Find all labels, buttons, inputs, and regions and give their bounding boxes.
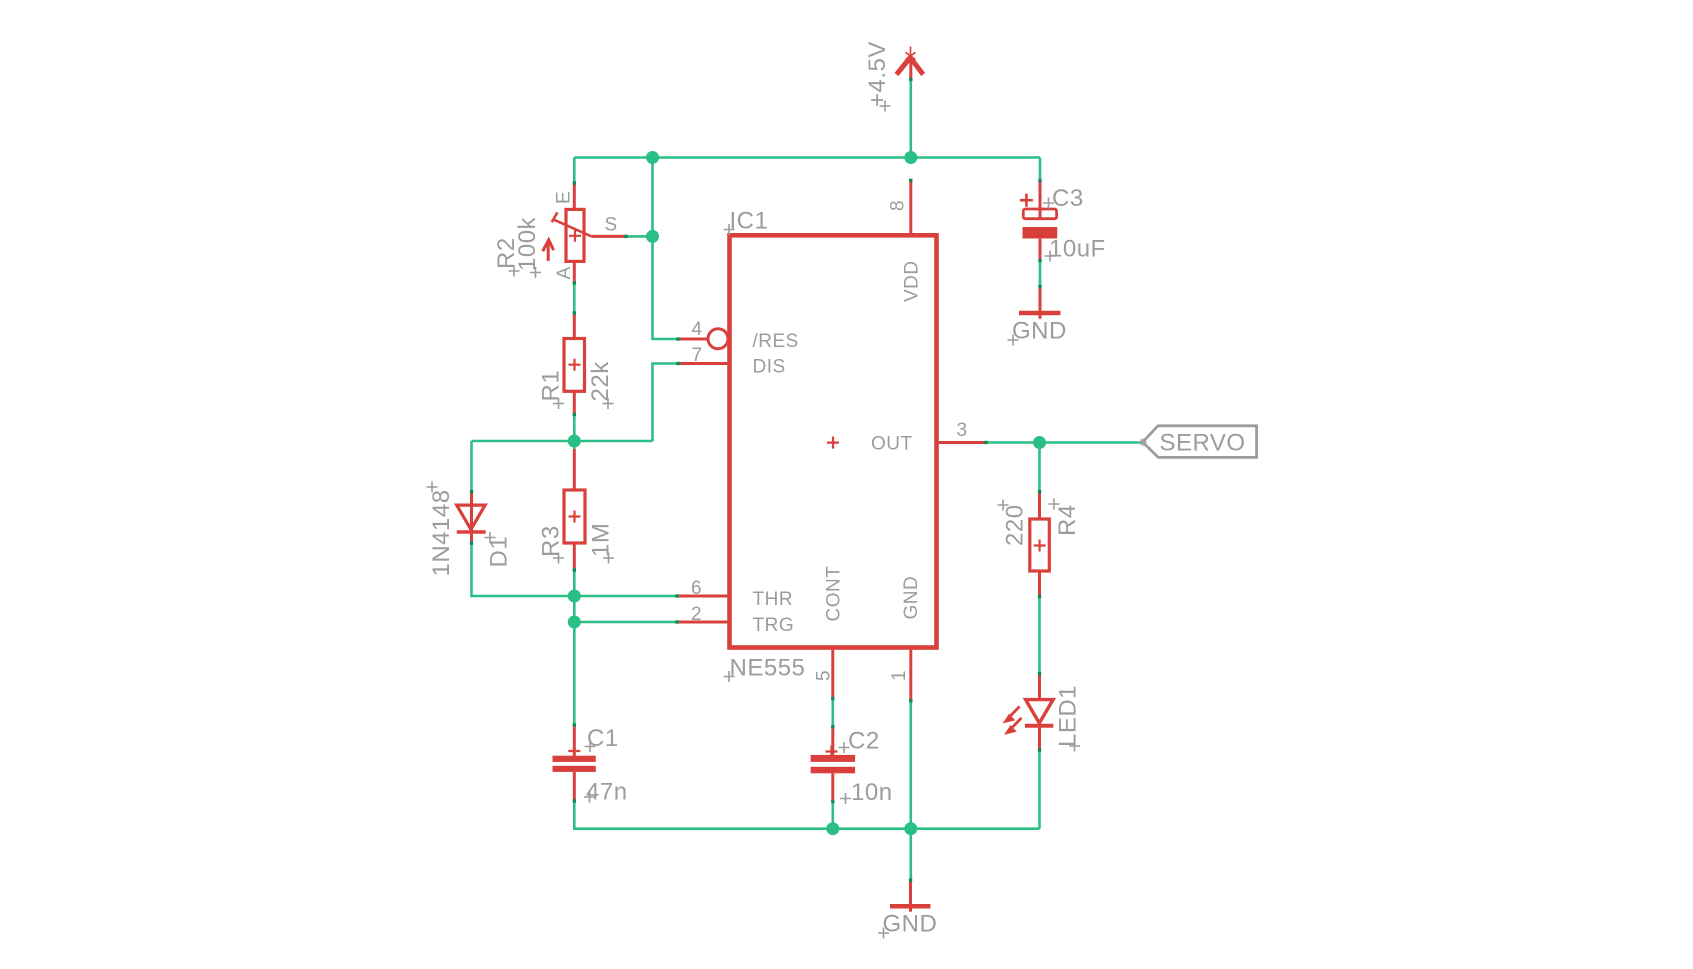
svg-text:47n: 47n	[586, 779, 628, 806]
wire C3 to GND	[1039, 261, 1042, 287]
svg-text:R3: R3	[538, 525, 565, 557]
svg-text:DIS: DIS	[753, 357, 786, 378]
label origin crosses gray	[427, 101, 1081, 939]
wire THR	[574, 595, 677, 598]
pin connection points	[470, 78, 1042, 882]
node junction J5 THR	[568, 590, 581, 603]
wire node to D1 top	[470, 441, 473, 492]
wire supply arrow to rail	[909, 80, 912, 158]
wire D1 bottom to THR node	[472, 543, 575, 596]
pin 5 CONT stub	[831, 650, 834, 699]
svg-text:GND: GND	[1012, 318, 1067, 345]
pin 1 GND stub	[909, 650, 912, 701]
resistor R4	[1030, 492, 1050, 597]
svg-text:GND: GND	[901, 576, 922, 620]
resistor R1	[564, 313, 585, 415]
svg-text:NE555: NE555	[730, 655, 806, 682]
svg-text:1M: 1M	[588, 523, 615, 557]
svg-text:100k: 100k	[514, 216, 541, 271]
wire OUT to SERVO	[986, 441, 1143, 444]
capacitor C1	[553, 725, 596, 801]
pin 3 OUT stub	[939, 441, 986, 444]
op IC1 NE555 body	[730, 235, 937, 647]
potentiometer R2	[543, 183, 626, 283]
wire rail to GND	[909, 829, 912, 881]
svg-text:1N4148: 1N4148	[428, 489, 455, 576]
node junction J4	[568, 435, 581, 448]
svg-text:2: 2	[691, 604, 702, 625]
wire R4 to LED	[1038, 597, 1041, 674]
wire TRG	[574, 621, 677, 624]
wire C1 bottom rail	[574, 801, 1039, 829]
svg-text:C3: C3	[1052, 185, 1084, 212]
wire THR-TRG column	[573, 596, 576, 622]
wire R3 bottom	[573, 570, 576, 596]
svg-text:TRG: TRG	[753, 615, 795, 636]
wire left column to /RES	[653, 158, 679, 340]
node junction J8	[904, 822, 917, 835]
svg-text:S: S	[605, 215, 618, 236]
LED LED1	[1004, 674, 1053, 751]
wire TRG to C1	[573, 622, 576, 725]
node junction J9 OUT	[1033, 436, 1046, 449]
wire OUT node to R4	[1038, 443, 1041, 492]
svg-text:LED1: LED1	[1055, 685, 1082, 747]
wire DIS route	[653, 364, 679, 442]
pin 6 THR stub	[677, 595, 730, 598]
svg-text:VDD: VDD	[902, 260, 923, 302]
node junction J1	[646, 151, 659, 164]
svg-text:5: 5	[814, 670, 835, 681]
svg-text:IC1: IC1	[730, 208, 769, 235]
node junction J2	[904, 151, 917, 164]
net flag SERVO	[1139, 426, 1257, 458]
svg-text:SERVO: SERVO	[1160, 430, 1246, 457]
svg-text:THR: THR	[753, 589, 794, 610]
svg-text:8: 8	[888, 200, 909, 211]
node junction J3 S	[646, 230, 659, 243]
wire CONT to C2	[831, 699, 834, 727]
svg-text:1: 1	[889, 670, 910, 681]
svg-text:C2: C2	[848, 728, 880, 755]
wire pot to R1	[573, 283, 576, 313]
pin 2 TRG stub	[677, 621, 730, 624]
wire top rail VCC	[574, 156, 1040, 159]
svg-text:CONT: CONT	[824, 566, 845, 622]
wire LED to rail	[1038, 750, 1041, 829]
svg-text:C1: C1	[587, 725, 619, 752]
svg-text:3: 3	[957, 420, 968, 441]
pin 7 DIS stub	[678, 362, 730, 365]
diode D1	[457, 492, 486, 544]
svg-text:7: 7	[692, 345, 703, 366]
svg-text:4: 4	[692, 319, 703, 340]
wire C3 drop	[1039, 158, 1042, 181]
capacitor C2	[811, 727, 856, 802]
wire mid node row	[472, 440, 653, 443]
wire node down to R3	[573, 441, 576, 449]
svg-text:+4.5V: +4.5V	[864, 41, 891, 107]
wire pin1 to rail	[909, 701, 912, 829]
node junction J6 TRG	[568, 616, 581, 629]
pin 8 VDD stub	[909, 180, 912, 233]
svg-text:/RES: /RES	[753, 331, 799, 352]
svg-text:220: 220	[1002, 504, 1029, 546]
resistor R3	[564, 449, 585, 570]
svg-text:E: E	[554, 191, 575, 204]
svg-text:R1: R1	[538, 370, 565, 402]
ground GND bottom symbol	[890, 880, 931, 912]
pin 4 /RES stub with bubble	[678, 329, 728, 349]
wire R1 bottom to node	[573, 415, 576, 442]
wire pot top drop	[573, 158, 576, 184]
svg-text:22k: 22k	[587, 361, 614, 402]
ground GND top symbol	[1019, 287, 1061, 319]
node junction J7	[826, 822, 839, 835]
supply +4.5V symbol	[897, 47, 924, 80]
capacitor C3 polarized	[1020, 181, 1057, 261]
svg-text:6: 6	[691, 578, 702, 599]
svg-text:OUT: OUT	[871, 434, 913, 455]
wire S to column	[626, 235, 653, 238]
svg-text:10n: 10n	[851, 779, 893, 806]
svg-text:R4: R4	[1054, 504, 1081, 536]
wire C2 to rail	[831, 802, 834, 829]
svg-text:A: A	[554, 266, 575, 279]
svg-text:10uF: 10uF	[1049, 236, 1106, 263]
svg-text:GND: GND	[883, 911, 938, 938]
